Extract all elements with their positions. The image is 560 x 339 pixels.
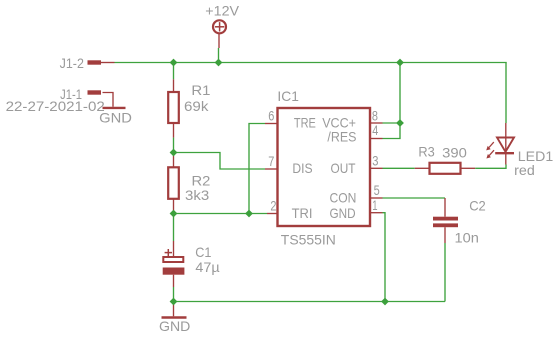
wire: top rail +12V junction to right corner (219, 62, 507, 64)
junction on top rail at R1 (170, 59, 178, 67)
svg-text:69k: 69k (184, 98, 209, 114)
wire: R3 to LED cathode (475, 165, 506, 169)
wire: R2 bottom to TRI rail (173, 212, 175, 214)
wire: pin 8 junction down to pin 4 (383, 123, 401, 139)
wire: pin 5 CON to C2 (383, 197, 446, 199)
svg-text:R1: R1 (191, 82, 210, 98)
svg-text:4: 4 (372, 122, 378, 138)
junction at ground rail / pin 1 branch (381, 298, 389, 306)
svg-text:GND: GND (330, 205, 356, 221)
wire: mid junction to DIS pin 7 (174, 153, 266, 170)
wire: top rail down to R1 top (173, 63, 175, 80)
pin 3 OUT stub (370, 167, 383, 169)
svg-text:IC1: IC1 (277, 88, 299, 104)
capacitor C1 (polarized) (163, 241, 185, 287)
svg-text:22-27-2021-02: 22-27-2021-02 (6, 98, 105, 114)
wire: TRE pin 6 down to TRI junction (249, 124, 265, 214)
svg-text:10n: 10n (455, 230, 479, 246)
op-amp / IC1 box TS555IN (278, 108, 371, 226)
svg-text:OUT: OUT (331, 160, 356, 176)
svg-text:1: 1 (372, 197, 377, 213)
junction TRE-TRI link (245, 210, 253, 218)
capacitor C2 (433, 198, 458, 243)
LED LED1 (486, 123, 514, 165)
supply symbol +12V (213, 20, 226, 48)
pin 1 GND stub (370, 212, 383, 214)
pin 5 CON stub (370, 197, 383, 199)
svg-text:C2: C2 (469, 198, 486, 214)
svg-text:+12V: +12V (205, 3, 239, 19)
pin 7 DIS stub (265, 168, 278, 170)
junction at ground rail / C1 (170, 298, 178, 306)
svg-text:red: red (514, 162, 535, 178)
wire: top rail R1 junction to +12V junction (174, 62, 219, 64)
svg-text:TRE: TRE (294, 115, 316, 131)
wire: pin 8 to VCC branch (383, 122, 401, 124)
svg-text:47µ: 47µ (195, 259, 219, 275)
resistor R2 (168, 156, 179, 212)
wire: C1 bottom to ground rail (173, 287, 175, 302)
junction at R2 bottom / TRI rail (170, 210, 178, 218)
wire: R1 bottom to mid junction (173, 138, 175, 156)
svg-text:CON: CON (330, 190, 357, 206)
pin 8 VCC stub (370, 122, 383, 124)
wire: ground rail up to C2 bottom (444, 243, 446, 302)
junction on top rail at VCC branch (396, 59, 404, 67)
pin 6 TRE stub (265, 123, 278, 125)
svg-text:R3: R3 (418, 144, 435, 160)
wire: rail corner down to LED anode (505, 63, 507, 124)
svg-text:C1: C1 (195, 244, 211, 260)
svg-text:2: 2 (270, 198, 276, 214)
svg-text:/RES: /RES (327, 129, 356, 145)
wire: pin 1 GND down to ground rail (383, 213, 386, 302)
svg-text:6: 6 (268, 108, 274, 124)
wire: pin 3 OUT to R3 (383, 167, 415, 169)
wire: top rail from J1-2 to R1 junction (115, 62, 174, 64)
svg-text:7: 7 (268, 153, 274, 169)
pin 2 TRI stub (267, 213, 278, 215)
svg-text:3k3: 3k3 (185, 187, 209, 203)
wire: bottom ground rail left section (174, 301, 386, 303)
junction on top rail at +12V (215, 59, 223, 67)
svg-text:TS555IN: TS555IN (281, 232, 336, 248)
connector pin J1-2 (88, 60, 115, 64)
svg-text:DIS: DIS (292, 160, 312, 176)
ground symbol GND (bottom) (162, 304, 187, 318)
wire: bottom ground rail right section (385, 301, 445, 303)
svg-text:TRI: TRI (292, 205, 313, 221)
svg-text:J1-2: J1-2 (60, 55, 84, 71)
resistor R3 (415, 163, 476, 174)
pin 4 /RES stub (370, 138, 383, 140)
wire: TRI junction down to C1 (173, 214, 175, 242)
wire: +12V pin to top rail (218, 48, 220, 63)
connector pin J1-1 (88, 93, 114, 107)
wire: TRI rail from R2 junction to pin 2 (174, 213, 268, 215)
svg-text:3: 3 (372, 152, 378, 168)
junction at pin 8 (396, 119, 404, 127)
svg-text:GND: GND (159, 318, 190, 334)
ground symbol at J1-1 (103, 107, 126, 109)
svg-text:390: 390 (442, 145, 467, 161)
svg-text:5: 5 (374, 182, 380, 198)
wire: top rail down to pin 8 junction (399, 63, 401, 124)
resistor R1 (168, 79, 179, 137)
junction between R1 and R2 (170, 149, 178, 157)
